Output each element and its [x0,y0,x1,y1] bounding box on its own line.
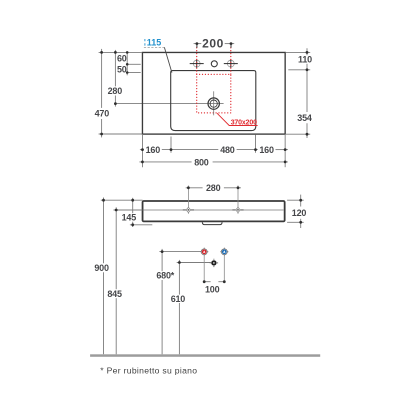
cold water symbol (blue) [220,248,228,256]
red dotted centerline right faucet [230,48,232,75]
svg-text:50: 50 [117,64,127,74]
faucet hole cross left (top view) [190,60,204,68]
dimension row 160 480 160 [140,148,288,151]
left extension line top edge [99,51,143,53]
svg-text:280: 280 [108,86,123,96]
drain boss under basin [202,222,222,224]
dimension 845 [107,207,142,354]
dimension 354 (right) [297,113,312,138]
waste outlet symbol (black) [210,259,218,267]
svg-text:60: 60 [117,54,127,64]
label 115 (blue) with dashed underline and leader [144,38,172,73]
svg-text:354: 354 [297,113,312,123]
bowl inner outline top view [171,71,256,131]
floor line [90,354,320,357]
dimension 610 [171,260,211,354]
dimension 120 extension lines [287,200,304,222]
svg-text:160: 160 [146,145,161,155]
dimension 800 [139,157,288,167]
svg-text:* Per rubinetto su piano: * Per rubinetto su piano [100,365,197,375]
label 370x200 [231,119,257,126]
svg-text:610: 610 [171,294,186,304]
red leader line to 370x200 label [217,113,258,125]
basin front inner edge line [144,209,284,211]
dimension 680* [156,249,201,354]
red dotted centerline left faucet [196,48,198,75]
drain outer circle [208,98,219,109]
dimension 280 extension line to drain center [115,103,223,105]
left extension line bottom edge [99,133,143,135]
svg-text:160: 160 [259,145,274,155]
label 50 [117,64,127,74]
dimension 470 (left) [95,49,110,137]
svg-text:110: 110 [298,55,312,65]
bottom extension lines [141,134,143,167]
faucet diamond marker right (front) [232,207,243,212]
svg-text:120: 120 [292,208,307,218]
red dotted rectangle 370x200 [197,74,231,113]
dimension 100 drop lines [204,255,224,281]
svg-text:370x200: 370x200 [231,119,257,126]
svg-text:280: 280 [206,183,221,193]
dimension 280 (top view left) [108,50,123,107]
extension line 50 level [127,72,141,74]
svg-text:100: 100 [205,285,220,295]
svg-text:680*: 680* [156,271,174,281]
dimension 120 [292,195,307,228]
overflow hole circle [211,61,217,67]
svg-text:470: 470 [95,109,110,119]
footnote text [100,365,197,375]
svg-text:200: 200 [202,36,224,50]
svg-text:800: 800 [194,157,209,167]
dimension 60 and 50 line [126,51,129,75]
svg-text:145: 145 [122,213,137,223]
basin outer outline top view 800x470 [142,52,285,134]
label 480 [220,145,235,155]
dimension 110 (right) [298,48,312,112]
basin front outline [143,201,285,221]
svg-text:480: 480 [220,145,235,155]
drain inner circle [210,100,217,107]
faucet hole cross right (top view) [224,60,238,68]
svg-text:115: 115 [147,38,162,48]
svg-text:845: 845 [107,289,122,299]
drain crosshair vertical [213,91,215,115]
dimension 200 (top) [194,36,235,50]
dimension 280 (front) [186,183,241,193]
dimension 145 [122,198,153,227]
dimension 900 [94,198,142,355]
label 160 right [259,145,274,155]
dimension 100 [203,280,226,294]
label 60 [117,54,127,64]
extension line 60 level [127,63,141,65]
dimension 280 (front) extension drops [188,186,238,214]
faucet diamond marker left (front) [183,207,194,212]
label 160 left [146,145,161,155]
svg-text:900: 900 [94,263,109,273]
right extension lines [286,51,310,53]
hot water symbol (red) [200,248,208,256]
